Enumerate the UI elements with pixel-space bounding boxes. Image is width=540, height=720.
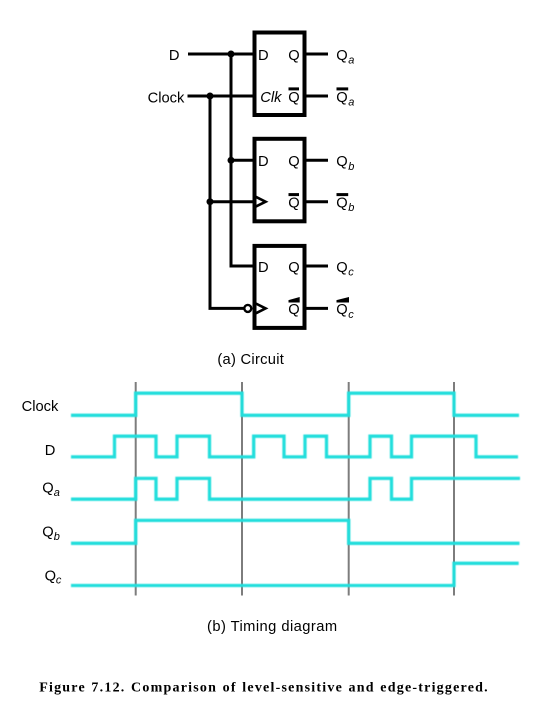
svg-text:D: D: [45, 443, 56, 459]
svg-text:Q: Q: [42, 480, 53, 496]
svg-text:Clock: Clock: [148, 91, 185, 107]
svg-text:Q: Q: [288, 154, 299, 170]
svg-text:b: b: [348, 161, 354, 173]
svg-text:b: b: [348, 202, 354, 214]
svg-text:Clock: Clock: [22, 399, 59, 415]
svg-text:D: D: [258, 260, 269, 276]
svg-text:Q: Q: [288, 90, 299, 106]
svg-text:Q: Q: [288, 196, 299, 212]
svg-text:c: c: [56, 574, 62, 586]
svg-text:c: c: [348, 267, 354, 279]
svg-text:a: a: [348, 55, 354, 67]
svg-text:(a) Circuit: (a) Circuit: [217, 352, 284, 368]
svg-text:D: D: [169, 48, 180, 64]
svg-text:a: a: [348, 97, 354, 109]
svg-text:Q: Q: [45, 568, 56, 584]
svg-text:Q: Q: [336, 302, 347, 318]
svg-text:Q: Q: [336, 48, 347, 64]
svg-text:Q: Q: [336, 154, 347, 170]
svg-text:Q: Q: [42, 524, 53, 540]
svg-text:Q: Q: [336, 196, 347, 212]
svg-text:D: D: [258, 154, 269, 170]
svg-text:Q: Q: [288, 48, 299, 64]
svg-text:D: D: [258, 48, 269, 64]
svg-text:b: b: [54, 531, 60, 543]
svg-text:Clk: Clk: [260, 90, 282, 106]
svg-text:(b) Timing diagram: (b) Timing diagram: [207, 619, 338, 635]
svg-text:Q: Q: [336, 260, 347, 276]
svg-text:Q: Q: [288, 260, 299, 276]
svg-text:a: a: [54, 487, 60, 499]
svg-text:Q: Q: [336, 90, 347, 106]
svg-text:c: c: [348, 309, 354, 321]
svg-text:Figure 7.12. Comparison of lev: Figure 7.12. Comparison of level-sensiti…: [39, 681, 489, 696]
svg-text:Q: Q: [288, 302, 299, 318]
